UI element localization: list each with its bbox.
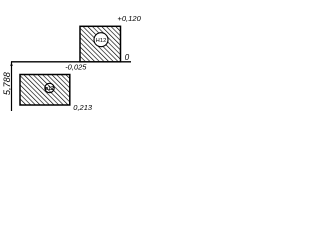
svg-text:в12: в12 xyxy=(45,86,54,92)
svg-text:5,788: 5,788 xyxy=(2,71,12,95)
svg-text:0,213: 0,213 xyxy=(73,103,93,112)
zero line xyxy=(11,61,131,63)
shaft tolerance zone (hatched rectangle) xyxy=(20,75,70,106)
svg-text:-0,025: -0,025 xyxy=(65,62,87,71)
dimension line 5,788 (vertical) xyxy=(11,62,13,111)
dimension arrow top xyxy=(10,62,13,66)
circle label on shaft zone xyxy=(45,83,54,92)
svg-text:Н12: Н12 xyxy=(96,38,107,44)
svg-text:+0,120: +0,120 xyxy=(117,14,141,23)
hole tolerance zone H12 (hatched square) xyxy=(80,26,121,62)
circle label H12 xyxy=(94,33,108,47)
svg-text:0: 0 xyxy=(125,53,130,62)
